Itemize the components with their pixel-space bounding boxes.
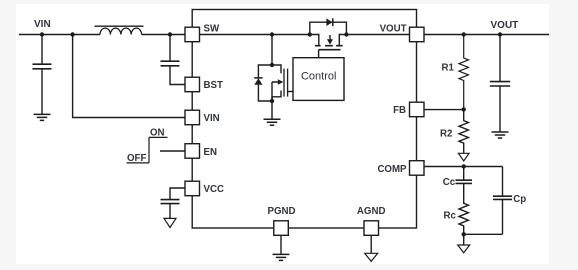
ground (VCC, open triangle) [164, 218, 176, 227]
pin BST [185, 77, 200, 92]
wire PGND to ground [280, 235, 282, 254]
svg-text:Rc: Rc [444, 211, 457, 222]
wire VOUT rail external [424, 34, 549, 36]
svg-text:VOUT: VOUT [380, 23, 407, 34]
svg-text:VOUT: VOUT [491, 20, 519, 31]
pin VOUT [410, 27, 425, 42]
wire VCC branch [170, 188, 185, 199]
ground (Cout, solid) [492, 132, 509, 138]
capacitor Cc [463, 167, 465, 181]
ground (input cap, solid) [34, 114, 51, 120]
pin FB [410, 102, 425, 117]
wire inductor to SW pin [142, 34, 185, 36]
wire output cap branch [499, 35, 501, 82]
EN waveform ON/OFF [127, 137, 168, 163]
wire VIN rail to VIN pin [73, 35, 185, 118]
svg-text:EN: EN [204, 147, 217, 158]
IC U1 outline [192, 10, 416, 229]
wire SW rail inside IC [200, 35, 319, 46]
pin EN [185, 144, 200, 159]
capacitor Cbst [161, 61, 180, 66]
wire BST bootstrap branch [169, 35, 171, 62]
pin PGND [274, 221, 289, 236]
diode D1 body diode arrow [254, 78, 262, 84]
svg-text:Control: Control [301, 71, 336, 83]
node VIN/Cin junction [40, 32, 44, 36]
wire COMP net [424, 166, 503, 168]
node VOUT/Cout junction [498, 32, 502, 36]
wire FB net [424, 109, 464, 111]
resistor R1 [459, 35, 468, 110]
node diode D2 left junction [308, 32, 312, 36]
node Q1 source-diode junction [270, 99, 274, 103]
node COMP junction [462, 164, 466, 168]
pin COMP [410, 161, 425, 176]
pin SW [185, 27, 200, 42]
node BST cap junction [168, 32, 172, 36]
pin AGND [364, 221, 379, 236]
svg-text:ON: ON [150, 128, 165, 139]
ground (Rc/Cp, open triangle) [463, 234, 465, 245]
transistor Q2 body arrow [327, 39, 333, 44]
wire input cap branch [41, 35, 43, 65]
ground (R2, open triangle) [458, 153, 469, 161]
resistor R2 [459, 109, 468, 153]
pin VIN [185, 110, 200, 125]
svg-text:Cp: Cp [513, 194, 526, 205]
node Q1 drain-diode junction [270, 63, 274, 67]
ground (AGND, open triangle) [365, 253, 378, 261]
transistor Q1 low-side body diode [258, 65, 272, 101]
wire VIN input rail [19, 34, 100, 36]
svg-text:AGND: AGND [357, 206, 386, 217]
wire Q1 source to ground [271, 101, 273, 119]
pin VCC [185, 181, 200, 196]
node diode D2 right junction [344, 32, 348, 36]
transistor Q1 body arrow [278, 79, 284, 84]
diode D2 body diode arrow [326, 18, 332, 26]
ground (Q1 source, solid) [264, 119, 281, 125]
svg-text:VCC: VCC [204, 184, 224, 195]
diode D1 cathode bar [254, 77, 262, 79]
capacitor Cin [33, 64, 52, 69]
svg-text:SW: SW [204, 23, 220, 34]
capacitor Cout [490, 82, 510, 86]
svg-text:VIN: VIN [204, 113, 220, 124]
transistor Q2 high-side FET [315, 45, 343, 47]
node FB divider junction [462, 107, 466, 111]
svg-text:PGND: PGND [268, 206, 296, 217]
wire AGND to ground [370, 235, 372, 253]
resistor Rc [459, 183, 468, 234]
svg-text:COMP: COMP [377, 164, 407, 175]
inductor L1 [100, 28, 142, 34]
svg-text:Cc: Cc [443, 177, 456, 188]
node VOUT/R1 junction [462, 32, 466, 36]
pin squares [185, 27, 424, 235]
diode D2 cathode bar [332, 18, 334, 26]
svg-text:VIN: VIN [34, 19, 51, 30]
node VIN pin branch junction [70, 32, 74, 36]
svg-text:R1: R1 [442, 63, 455, 74]
node Rc/Cp bottom junction [462, 232, 466, 236]
transistor Q1 low-side FET [271, 35, 273, 66]
svg-text:OFF: OFF [127, 153, 146, 164]
wire EN stub [160, 150, 185, 152]
wire comp bottom [464, 233, 503, 235]
transistor Q2 high-side body diode loop [310, 22, 347, 34]
capacitor Cvcc [161, 200, 180, 204]
ground (PGND, solid) [273, 254, 290, 260]
svg-text:R2: R2 [440, 129, 452, 140]
svg-text:BST: BST [204, 80, 223, 91]
control block U1a [293, 58, 344, 101]
capacitor Cp [502, 167, 504, 197]
svg-text:FB: FB [393, 105, 406, 116]
node SW / Q1 drain junction [270, 32, 274, 36]
